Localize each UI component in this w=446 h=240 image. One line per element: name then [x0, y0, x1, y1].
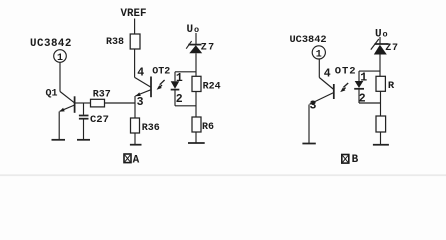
- svg-text:R38: R38: [106, 37, 124, 48]
- wire: Uo to zener Z7: [195, 33, 197, 45]
- wire: Z7 to R / LED node (figure B): [379, 55, 381, 77]
- UC3842 pin 1 terminal (figure B): [312, 46, 325, 61]
- svg-text:R36: R36: [142, 123, 160, 134]
- wire: R24 to R6: [195, 92, 197, 118]
- OT2 internal LED (figure B): [354, 81, 364, 89]
- wire: R38 to OT2 pin 4 (collector): [134, 49, 136, 77]
- ground (R6): [188, 142, 205, 144]
- svg-text:1: 1: [316, 49, 322, 60]
- wire: LED bottom branch: [175, 105, 196, 107]
- svg-text:4: 4: [324, 68, 331, 81]
- light coupling arrow (figure B): [340, 83, 348, 92]
- resistor R36: [131, 118, 140, 133]
- OT2 LED branch wire (pin 2 side, figure B): [358, 89, 360, 103]
- wire: Q1 base to R37: [75, 102, 91, 104]
- resistor (unlabeled, figure B): [376, 116, 386, 132]
- resistor R6: [192, 117, 201, 132]
- ground (C27): [77, 139, 90, 141]
- svg-text:Q1: Q1: [46, 89, 58, 100]
- svg-text:2: 2: [176, 93, 183, 106]
- svg-text:B: B: [352, 154, 359, 166]
- svg-text:3: 3: [137, 96, 144, 109]
- svg-text:UC3842: UC3842: [290, 34, 327, 46]
- svg-text:OT2: OT2: [152, 67, 170, 78]
- wire: LED top branch: [175, 71, 196, 73]
- wire: LED bottom branch (figure B): [359, 102, 380, 104]
- svg-text:R24: R24: [203, 81, 221, 92]
- capacitor C27: [79, 103, 89, 139]
- ground (Q1 emitter): [52, 139, 66, 141]
- wire: LED top branch (figure B): [359, 70, 380, 72]
- caption 图A: [124, 154, 140, 166]
- transistor Q1: [59, 92, 74, 113]
- wire: R36 to ground: [134, 133, 136, 144]
- caption 图B: [342, 154, 359, 166]
- ground (figure B column): [373, 144, 389, 146]
- ground (OT2 pin 3): [302, 143, 315, 145]
- page divider line: [0, 174, 446, 176]
- wire: lower resistor to ground (figure B): [380, 132, 382, 144]
- svg-text:A: A: [133, 154, 140, 166]
- resistor R38: [130, 34, 140, 49]
- svg-text:3: 3: [310, 99, 317, 112]
- wire: Q1 emitter to ground: [58, 112, 60, 140]
- svg-text:U: U: [187, 24, 194, 36]
- wire: pin 1 to OT2 pin 4: [318, 59, 320, 78]
- UC3842 pin 1 terminal: [54, 50, 67, 64]
- wire: Z7 to R24 / LED node: [195, 53, 197, 76]
- zener diode Z7 (figure B): [371, 39, 389, 55]
- output Uo label (figure A): [187, 24, 200, 36]
- wire: node 3 down to R36: [134, 96, 136, 118]
- svg-text:Z7: Z7: [201, 42, 216, 53]
- zener diode Z7: [186, 41, 202, 53]
- OT2 LED branch wire (pin 1 side): [174, 72, 176, 81]
- wire: Uo to Z7 (figure B): [379, 37, 381, 44]
- light coupling arrow: [157, 80, 165, 90]
- svg-text:1: 1: [57, 53, 63, 64]
- svg-text:UC3842: UC3842: [30, 38, 72, 50]
- wire: R6 to ground: [195, 132, 197, 143]
- svg-text:Z7: Z7: [385, 43, 398, 54]
- OT2 internal LED: [171, 81, 180, 89]
- resistor R (figure B): [376, 76, 385, 91]
- OT2 LED branch wire (pin 2 side): [174, 90, 176, 106]
- OT2 phototransistor: [135, 77, 151, 98]
- wire: R to lower resistor (figure B): [380, 91, 382, 116]
- wire: VREF to R38: [134, 19, 136, 35]
- wire: R37 to node 3: [105, 102, 136, 104]
- OT2 LED branch wire (pin 1 side, figure B): [358, 71, 360, 81]
- OT2 phototransistor (figure B): [309, 78, 334, 105]
- svg-text:U: U: [375, 28, 382, 40]
- svg-text:4: 4: [137, 67, 144, 80]
- resistor R37: [91, 99, 105, 107]
- output Uo label (figure B): [375, 28, 388, 40]
- resistor R24: [192, 76, 201, 91]
- ground (R36): [130, 144, 142, 146]
- wire: OT2 pin 3 to ground: [308, 105, 310, 144]
- svg-text:VREF: VREF: [121, 8, 147, 20]
- wire: pin 1 down to Q1 collector: [59, 62, 61, 91]
- svg-text:o: o: [383, 30, 388, 40]
- svg-text:OT2: OT2: [335, 66, 357, 78]
- svg-text:R: R: [388, 80, 395, 92]
- svg-text:R6: R6: [202, 122, 214, 133]
- svg-text:R37: R37: [93, 89, 111, 100]
- svg-text:C27: C27: [90, 114, 109, 126]
